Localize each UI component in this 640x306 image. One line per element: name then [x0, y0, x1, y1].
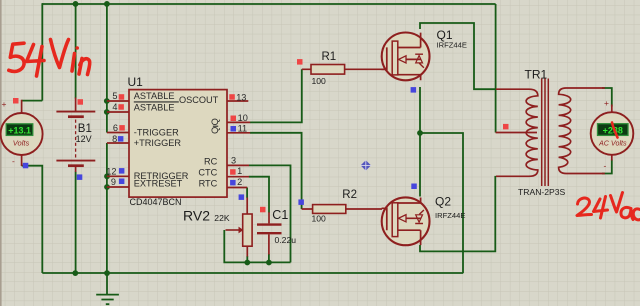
svg-text:R2: R2	[342, 189, 357, 201]
svg-text:AC Volts: AC Volts	[598, 139, 627, 148]
svg-text:100: 100	[312, 213, 327, 223]
svg-text:9: 9	[111, 177, 116, 187]
svg-text:IRFZ44E: IRFZ44E	[435, 211, 465, 220]
svg-text:TRAN-2P3S: TRAN-2P3S	[518, 187, 566, 197]
transformer TR1 core	[542, 79, 549, 187]
svg-text:1: 1	[237, 166, 242, 176]
U1 right pin stubs (13,10,11,3,1,2)	[227, 101, 250, 188]
wire Q2 source to TR1 primary bottom	[420, 176, 495, 252]
svg-text:R1: R1	[322, 51, 337, 63]
svg-text:B1: B1	[78, 123, 92, 135]
wire Q1 source to Q2 drain	[419, 87, 421, 197]
wire pin10 Q to R1	[250, 69, 302, 122]
wire Q1 drain to TR1 primary top	[420, 23, 496, 89]
transistor Q1 IRFZ44E	[382, 33, 430, 81]
resistor R1	[302, 68, 382, 70]
svg-text:ASTABLE: ASTABLE	[134, 102, 175, 112]
svg-text:13: 13	[236, 93, 246, 103]
svg-text:0.22u: 0.22u	[275, 235, 297, 245]
svg-text:8: 8	[112, 134, 117, 144]
wire battery bottom	[75, 172, 77, 274]
svg-text:11: 11	[238, 123, 248, 133]
svg-text:4: 4	[112, 102, 117, 112]
potentiometer RV2	[246, 198, 248, 257]
battery B1	[56, 98, 95, 173]
wire pin1 CTC to C1 top	[249, 177, 269, 213]
svg-text:12: 12	[106, 166, 116, 176]
svg-text:C1: C1	[272, 208, 288, 222]
voltmeter DC display	[6, 124, 33, 136]
wire mid vertical upper (rail to pin6)	[106, 4, 108, 133]
svg-text:Volts: Volts	[13, 139, 30, 148]
transformer TR1 center tap lead	[496, 132, 537, 134]
pin state markers (blue squares)	[23, 87, 417, 205]
svg-text:+TRIGGER: +TRIGGER	[134, 138, 182, 148]
svg-text:-: -	[12, 156, 15, 166]
svg-text:U1: U1	[128, 75, 144, 89]
wire node branch to ground rail	[420, 133, 463, 273]
transformer TR1 primary winding	[496, 89, 538, 176]
svg-text:100: 100	[312, 76, 327, 86]
wire left vertical from rail to voltmeter+	[22, 3, 43, 100]
svg-text:12V: 12V	[76, 134, 92, 144]
transistor Q2 IRFZ44E	[382, 197, 430, 245]
resistor R2	[302, 208, 382, 210]
wire C1 bottom to bus	[268, 254, 270, 262]
wire AC voltmeter bottom to TR1 secondary	[602, 160, 612, 174]
U1 pin names	[134, 91, 220, 188]
node junction dots	[72, 1, 423, 276]
svg-text:Q: Q	[210, 118, 220, 125]
svg-text:-: -	[604, 161, 607, 171]
svg-text:+: +	[604, 98, 609, 108]
wire RV2 wiper bus	[224, 230, 290, 262]
wire pin2 RTC to RV2 top	[246, 188, 248, 198]
svg-text:EXTRESET: EXTRESET	[134, 178, 183, 188]
svg-text:-TRIGGER: -TRIGGER	[134, 127, 179, 137]
origin marker	[360, 160, 371, 171]
wire battery top	[75, 4, 77, 99]
svg-text:RC: RC	[204, 157, 218, 167]
svg-text:+13.1: +13.1	[8, 125, 31, 135]
wire pin3 RC to RV2 bus	[249, 165, 291, 262]
handwritten annotation 24Vac	[577, 123, 640, 220]
svg-text:Q2: Q2	[435, 195, 451, 209]
svg-text:Q: Q	[210, 127, 220, 134]
wire +V top rail	[42, 3, 496, 5]
transformer TR1 secondary winding	[559, 88, 605, 174]
svg-text:2: 2	[237, 177, 242, 187]
wire pin11 Qbar to R2	[250, 133, 302, 209]
svg-text:TR1: TR1	[525, 68, 548, 82]
wire mid vertical lower (pin8 to ground rail)	[106, 143, 108, 273]
voltmeter DC body	[1, 100, 43, 166]
wire bottom ground rail	[42, 272, 463, 274]
wire voltmeter- to bottom rail	[22, 166, 43, 273]
svg-text:6: 6	[113, 123, 118, 133]
handwritten annotation 54Vin	[9, 40, 90, 77]
svg-text:RV2: RV2	[183, 208, 210, 224]
svg-text:IRFZ44E: IRFZ44E	[437, 40, 467, 49]
pin state markers (red squares)	[13, 59, 509, 212]
capacitor C1	[268, 212, 270, 254]
svg-text:3: 3	[231, 155, 236, 165]
svg-text:CD4047BCN: CD4047BCN	[130, 197, 182, 207]
voltmeter AC body	[591, 105, 634, 161]
voltmeter AC display	[598, 124, 629, 136]
svg-text:+: +	[2, 99, 7, 109]
svg-text:ASTABLE: ASTABLE	[134, 91, 175, 101]
wire RV2 bottom to bus	[246, 256, 248, 262]
svg-text:10: 10	[238, 113, 248, 123]
svg-text:RTC: RTC	[199, 178, 218, 188]
wire TR1 secondary top to AC voltmeter	[602, 88, 612, 107]
svg-text:OSCOUT: OSCOUT	[179, 95, 219, 105]
wire +V rail to TR1 center tap	[495, 4, 497, 133]
op-amp-style IC U1 CD4047BCN body	[129, 90, 227, 198]
U1 pin numbers	[106, 91, 248, 187]
ground	[96, 273, 119, 304]
U1 left pin stubs (5,4,6,8,12,9)	[107, 101, 129, 187]
svg-text:CTC: CTC	[198, 168, 217, 178]
svg-text:22K: 22K	[214, 213, 230, 223]
svg-text:5: 5	[112, 91, 117, 101]
